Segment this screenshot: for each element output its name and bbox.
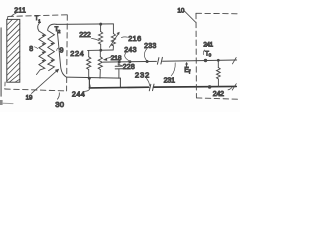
svg-text:10: 10 — [177, 8, 185, 15]
winding T2 top lead to top wire — [48, 24, 57, 30]
svg-text:241: 241 — [203, 42, 213, 49]
pot 218 wiper arrow + label — [106, 57, 110, 58]
node dot E_f bottom terminal — [208, 85, 212, 89]
svg-text:242: 242 — [213, 91, 224, 98]
svg-text:19: 19 — [26, 94, 33, 101]
svg-text:244: 244 — [72, 90, 85, 99]
svg-text:224: 224 — [70, 49, 84, 58]
potentiometer 216 — [112, 24, 114, 34]
bottom bus — [89, 86, 148, 89]
core bar (hatched) — [7, 19, 20, 82]
node dot top wire / R222 — [99, 23, 102, 26]
node dot 233 — [146, 60, 149, 63]
svg-text:2: 2 — [58, 29, 61, 34]
scan edge artifact left — [0, 28, 2, 96]
rail corner down to bus — [119, 78, 121, 88]
capacitor 231 (series, on wire) — [157, 58, 159, 65]
winding T1 — [38, 23, 40, 31]
node dot mid wire — [99, 49, 102, 52]
svg-text:232: 232 — [135, 70, 150, 79]
E_f arrow — [186, 64, 188, 67]
winding right rail curve to bottom rail — [57, 27, 67, 77]
scan blob bottom-left — [0, 100, 3, 105]
continuation slash bottom right — [232, 84, 236, 90]
node dot cap 228 tap — [118, 60, 121, 63]
winding T2 — [48, 31, 55, 71]
resistor 224 — [88, 50, 89, 56]
wire mid (joining 222/216 bottoms and 224/218 tops) — [88, 49, 114, 51]
svg-text:231: 231 — [164, 77, 176, 84]
dashed box 10: bottom edge — [196, 98, 240, 99]
node dot 241 terminal — [204, 59, 207, 62]
dashed box 10: top edge — [196, 12, 240, 15]
continuation slash top right — [232, 58, 236, 64]
top wire — [56, 23, 113, 26]
dashed box 211 bottom edge — [5, 89, 67, 91]
capacitor 228 — [118, 62, 120, 66]
svg-text:1: 1 — [38, 18, 41, 23]
wiper wire to right section — [103, 60, 156, 63]
svg-text:f: f — [189, 70, 191, 76]
resistor 222 — [100, 24, 102, 31]
dashed box 211 left edge stubs — [6, 16, 9, 20]
node dot resistor 242 top — [217, 59, 220, 62]
dashed box 211 top edge — [8, 15, 67, 17]
svg-text:222: 222 — [79, 32, 91, 39]
winding arrowheads — [42, 34, 54, 62]
node dot 243 — [128, 60, 131, 63]
dashed box 211 right edge — [66, 15, 69, 91]
pot 216 arrow — [109, 33, 118, 47]
potentiometer 218 — [99, 50, 101, 57]
svg-text:228: 228 — [123, 64, 135, 71]
svg-text:30: 30 — [55, 100, 64, 109]
dashed box 10: left edge — [195, 13, 197, 97]
svg-text:0: 0 — [209, 53, 212, 58]
capacitor 232 (series, on bus) — [149, 84, 151, 91]
winding T1 bottom hook — [36, 70, 40, 75]
resistor 242 — [217, 60, 219, 67]
svg-text:233: 233 — [144, 43, 156, 50]
bus step vertical — [88, 78, 90, 88]
node dot rail/bus step — [88, 77, 91, 80]
bottom rail inside/out of box — [66, 77, 120, 78]
svg-text:8: 8 — [29, 46, 33, 53]
svg-text:216: 216 — [128, 34, 141, 43]
svg-text:9: 9 — [60, 47, 64, 54]
